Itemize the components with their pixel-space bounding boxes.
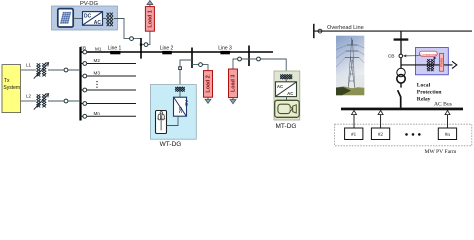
svg-text:AC: AC: [94, 20, 102, 26]
wire T-L1 to bus B1: [48, 69, 81, 71]
wire switch to WT transformer: [179, 70, 181, 88]
svg-text:Load 1: Load 1: [148, 10, 154, 27]
svg-text:System: System: [3, 85, 20, 91]
switch S-L2: [199, 63, 203, 67]
switch S-MT: [257, 57, 261, 61]
ellipsis dots PV units: [405, 133, 420, 136]
svg-text:AC: AC: [277, 84, 284, 89]
switch S-L1in: [64, 68, 68, 72]
switch S-L1: [144, 43, 148, 47]
wind turbine icon WT: [156, 111, 167, 134]
svg-text:Local: Local: [417, 83, 431, 89]
wire T-L2 to bus B1: [48, 100, 81, 102]
svg-text:Tx: Tx: [4, 78, 10, 84]
overhead line terminal: [313, 24, 315, 38]
transformer T-WT: [175, 87, 185, 92]
Tx System source: [2, 65, 21, 113]
OLTC transformer T-L2: [34, 94, 49, 110]
wire L2 from Tx System: [21, 100, 36, 102]
PV array icon: [58, 9, 73, 27]
svg-text:M1: M1: [95, 47, 102, 52]
feeder M5: [81, 102, 137, 106]
wire transformer to AC/AC: [285, 79, 287, 82]
svg-text:Relay: Relay: [439, 58, 443, 67]
svg-text:AC: AC: [184, 100, 189, 106]
svg-text:Mn: Mn: [94, 111, 101, 116]
svg-text:AC: AC: [287, 91, 294, 96]
wire bus N3 to load 2: [192, 65, 208, 71]
svg-text:AC Bus: AC Bus: [434, 102, 452, 108]
svg-text:M2: M2: [94, 58, 101, 63]
breaker CB (farm): [388, 53, 403, 59]
line 3 impedance: [218, 45, 232, 54]
svg-text:MW PV Farm: MW PV Farm: [425, 149, 457, 155]
DC/AC inverter U-PV: [83, 12, 103, 26]
transmission tower photo: [336, 36, 364, 96]
svg-text:M3: M3: [94, 71, 101, 76]
load 3: [229, 69, 238, 98]
breaker CB (microgrid): [80, 46, 87, 54]
PV-DG block enclosure: [52, 1, 118, 30]
junction on bus N2: [140, 43, 142, 45]
svg-text:Load 3: Load 3: [231, 75, 237, 92]
AC bus: [341, 102, 463, 111]
load L2 ground arrow: [205, 97, 211, 103]
wire bus N4 to MT-DG: [249, 59, 286, 75]
load L3 ground arrow: [230, 98, 236, 104]
microturbine icon MT: [275, 100, 300, 117]
svg-text:L1: L1: [26, 63, 31, 68]
incomer vertical line: [400, 31, 402, 69]
bus N2: [140, 38, 142, 59]
wire turbine to converter: [167, 116, 179, 125]
wire load 1 to bus N2: [141, 31, 150, 44]
local protection relay enclosure: [416, 48, 449, 75]
PV unit 2: [371, 110, 389, 139]
line 2 impedance: [160, 45, 174, 54]
step-up transformer T-farm: [397, 68, 405, 83]
svg-text:Line 3: Line 3: [218, 45, 232, 51]
wire transformer to WT converter: [179, 92, 181, 98]
wire bus N3 to WT-DG: [180, 60, 192, 67]
switch S-L2in: [64, 99, 68, 103]
svg-text:#2: #2: [378, 133, 384, 138]
PV unit n: [438, 110, 456, 139]
load 1: [145, 7, 154, 32]
trip signal arrow to CB: [403, 55, 420, 58]
main feeder M1 line: [81, 51, 274, 53]
bus N4: [248, 46, 250, 67]
measurement line to relay: [401, 64, 453, 66]
load L1 arrow: [147, 0, 153, 6]
WT-DG block enclosure: [151, 85, 197, 140]
svg-text:L2: L2: [26, 94, 31, 99]
relay element: [439, 53, 443, 71]
relay output arrow: [452, 61, 457, 68]
feeder M4: [81, 88, 137, 92]
svg-text:#1: #1: [351, 133, 357, 138]
switch S-OH: [318, 29, 322, 33]
svg-text:DC: DC: [84, 14, 92, 20]
wire AC/AC to microturbine: [286, 97, 288, 101]
main bus B1: [79, 47, 81, 121]
AC/AC converter U-MT: [276, 82, 297, 97]
switch S-PV: [130, 37, 134, 41]
svg-text:CB: CB: [388, 53, 395, 59]
comparator block: [420, 51, 438, 56]
svg-text:Load 2: Load 2: [206, 75, 212, 92]
svg-text:Line 1: Line 1: [108, 45, 122, 51]
MT-DG block enclosure: [274, 71, 300, 120]
line 1 impedance: [108, 45, 122, 54]
wire L1 from Tx System: [21, 69, 36, 71]
wire bus N4 to load 3: [233, 59, 249, 69]
svg-text:MT-DG: MT-DG: [276, 123, 297, 130]
svg-text:WT-DG: WT-DG: [160, 141, 182, 148]
switch S-WT: [179, 67, 182, 70]
svg-text:Comparator: Comparator: [420, 53, 436, 57]
OLTC transformer T-L1: [34, 63, 49, 79]
bus N3: [191, 48, 193, 69]
PCC bus tick: [394, 38, 409, 40]
current transformer CT: [427, 59, 434, 71]
svg-text:Relay: Relay: [417, 97, 431, 103]
wire inverter to PV transformer: [103, 18, 107, 20]
PV farm enclosure: [335, 124, 472, 146]
svg-text:#n: #n: [445, 133, 451, 138]
feeder M2: [81, 58, 137, 65]
svg-text:Protection: Protection: [417, 90, 443, 96]
wire PV array to inverter: [73, 18, 82, 20]
feeder Mn: [81, 111, 137, 118]
feeder M3: [81, 71, 137, 78]
overhead line: [314, 25, 472, 31]
transformer T-PV: [107, 13, 113, 27]
disconnect switch blade: [398, 83, 401, 108]
PV unit 1: [345, 110, 363, 139]
svg-text:Line 2: Line 2: [160, 45, 174, 51]
local protection relay label: [417, 83, 443, 103]
switch S-L3: [238, 57, 242, 61]
svg-text:Overhead Line: Overhead Line: [327, 25, 364, 31]
CT tap junction: [434, 57, 436, 59]
transformer T-MT: [280, 75, 292, 80]
wire PV-DG to bus N2: [114, 19, 141, 39]
load 2: [204, 71, 213, 98]
AC/DC converter U-WT: [174, 97, 190, 116]
svg-text:DC: DC: [178, 107, 183, 113]
ellipsis dots feeders: [96, 81, 97, 88]
